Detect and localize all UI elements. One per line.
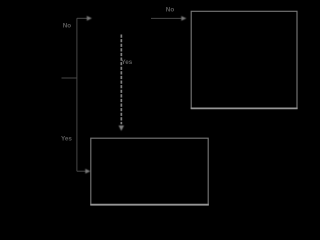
arrowhead top elbow	[87, 16, 92, 21]
arrowhead toward box1	[181, 16, 186, 21]
arrowhead into box2	[85, 169, 90, 174]
svg-text:No: No	[63, 22, 72, 29]
wire vertical trunk	[76, 18, 78, 171]
wire dashed Yes arrow down	[120, 35, 122, 125]
wire bottom elbow (Yes branch into box2)	[77, 170, 86, 172]
wire stub from hidden left node	[62, 77, 77, 79]
arrowhead dashed down	[119, 126, 124, 131]
svg-text:Yes: Yes	[121, 59, 132, 66]
svg-text:Yes: Yes	[61, 136, 72, 143]
node box2 (bottom)	[90, 138, 209, 205]
svg-text:No: No	[166, 6, 175, 13]
wire No arrow toward box1	[151, 17, 182, 19]
wire top elbow (No branch)	[77, 17, 87, 19]
node box1 (top-right)	[191, 11, 298, 108]
